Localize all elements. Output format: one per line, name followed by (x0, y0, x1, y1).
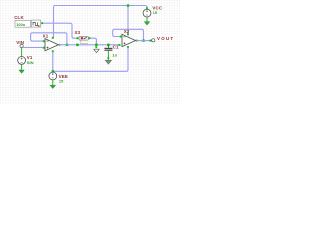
ground V1 (19, 70, 24, 73)
wire VCC rail (54, 6, 148, 38)
pin VOUT (150, 40, 152, 42)
svg-text:C1: C1 (113, 44, 119, 49)
wire CLK net (43, 23, 78, 38)
op-amp X1 (43, 33, 59, 50)
node switch tap (76, 44, 79, 47)
pin X2 output (136, 40, 138, 42)
node X2 feedback tap (142, 39, 144, 41)
wire X1 feedback loop (31, 33, 67, 45)
pin C1 ground (107, 57, 109, 59)
pin CLK output (41, 22, 43, 24)
node junction VCC rail / X2 leg (127, 4, 129, 6)
pin X2 vee (127, 46, 129, 48)
pin X2 minus (120, 36, 122, 38)
svg-text:1n: 1n (112, 52, 117, 57)
wire main signal X1 out to X2 plus (59, 44, 120, 46)
pin X1 minus (43, 40, 45, 42)
wire VCC to ground (146, 17, 148, 22)
ground VCC (144, 22, 150, 25)
wire X2 feedback loop (113, 29, 144, 40)
capacitor C1 (104, 44, 119, 57)
voltage source V1 (18, 55, 34, 65)
svg-text:CLK: CLK (14, 15, 24, 20)
ground VEE (50, 85, 56, 88)
wire VEE to ground (52, 80, 54, 85)
pin X3 left (77, 37, 79, 39)
wire X2 output to VOUT (137, 40, 152, 42)
pin X3 right (89, 37, 91, 39)
node hold (95, 44, 98, 47)
node C1 tap (107, 44, 110, 47)
voltage source VEE (49, 72, 68, 84)
node X1 feedback tap (66, 44, 68, 46)
pin X2 vcc (127, 33, 129, 35)
wire X1 to VEE rail (52, 52, 54, 72)
pin X1 vee (52, 50, 54, 52)
wire VEE rail (53, 47, 128, 71)
pin X1 output (59, 44, 61, 46)
ground hold node (94, 49, 100, 52)
pin X1 plus (43, 47, 45, 49)
wire C1 to ground (107, 51, 109, 60)
svg-text:X1: X1 (43, 33, 49, 38)
wire X2 VCC leg (127, 6, 129, 36)
op-amp X2 (122, 29, 136, 47)
switch X3 (75, 30, 89, 40)
ground C1 (105, 60, 111, 64)
voltage source CLK (pulse source box) (14, 15, 40, 27)
wire VIN to V1 (21, 48, 23, 57)
svg-text:VIN: VIN (16, 40, 24, 45)
svg-text:15: 15 (153, 10, 158, 15)
pin VCC top (146, 7, 148, 9)
svg-text:VOUT: VOUT (157, 36, 174, 41)
svg-text:100u: 100u (16, 22, 26, 27)
wire V1 to ground (21, 64, 23, 70)
terminal VOUT (152, 36, 175, 42)
svg-text:SIN: SIN (27, 60, 34, 65)
svg-text:X3: X3 (75, 30, 81, 35)
svg-text:15: 15 (59, 79, 64, 84)
wire VIN to X1 plus (23, 47, 43, 49)
pin hold ground stub (95, 46, 97, 48)
pin X1 vcc (52, 37, 54, 39)
pin X2 plus wire end (119, 44, 121, 46)
wire X3 to hold node (90, 38, 96, 45)
terminal VIN (16, 40, 24, 48)
node VEE tap (52, 70, 54, 72)
voltage source VCC (143, 5, 163, 17)
wire X3 body stub (81, 40, 88, 45)
